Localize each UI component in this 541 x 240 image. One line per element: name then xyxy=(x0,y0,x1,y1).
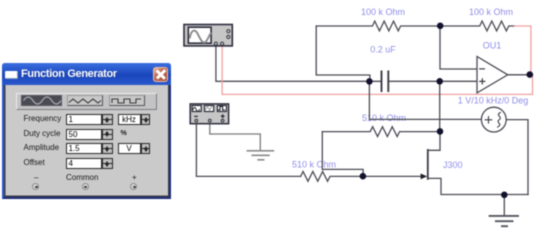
wire FG minus terminal to R4 and JFET gate xyxy=(196,124,300,176)
waveform button panel xyxy=(16,93,157,110)
wire red selected segment R2 right to output node F xyxy=(515,26,531,72)
junction node B xyxy=(437,128,444,135)
junction node G (ground net) xyxy=(501,192,508,199)
junction node C xyxy=(436,78,443,85)
transistor Q1 J300 JFET xyxy=(421,131,440,179)
junction node A xyxy=(360,173,367,180)
capacitor C1 0.2uF plates xyxy=(382,72,389,92)
svg-text:J300: J300 xyxy=(443,160,463,170)
wire node D down and right to AC source V1 xyxy=(369,81,481,119)
sine button (selected) xyxy=(21,95,62,106)
wire scope channel A to node D and capacitor xyxy=(216,46,381,81)
wire R3 left down with jog to node A xyxy=(322,132,363,174)
junction node D xyxy=(366,78,373,85)
junction node F (op-amp output) xyxy=(527,71,534,78)
wire op-amp output to node F xyxy=(508,74,528,76)
svg-text:1 V/10 kHz/0 Deg: 1 V/10 kHz/0 Deg xyxy=(458,95,529,105)
label J300 (JFET) xyxy=(443,160,463,170)
value label 510 k Ohm (R4) xyxy=(292,160,336,170)
value label 100 k Ohm (R2) xyxy=(469,7,513,17)
terminals xyxy=(32,183,39,190)
value label 510 k Ohm (R3) xyxy=(362,113,406,123)
rows xyxy=(24,114,62,123)
ground (FG common) xyxy=(210,124,273,160)
svg-text:510 k Ohm: 510 k Ohm xyxy=(362,113,406,123)
wire red scope channel B probe to output node F xyxy=(222,46,532,94)
AC source V1 circle xyxy=(481,107,506,132)
wire node C down to node B xyxy=(439,81,441,131)
triangle button xyxy=(67,95,103,106)
op-amp OU1 triangle xyxy=(477,57,508,93)
value label 0.2 uF (C1) xyxy=(370,45,396,55)
resistor R4 510k lower with leads xyxy=(301,172,421,182)
wire capacitor right to op-amp + input xyxy=(389,80,477,82)
wire feedback left vertical with jog to node D xyxy=(316,26,370,79)
wire node E down to op-amp - input xyxy=(440,26,477,69)
label OU1 (op-amp) xyxy=(483,41,502,51)
Function Generator dialog window xyxy=(2,63,171,199)
value label 1 V/10 kHz/0 Deg (V1) xyxy=(458,95,529,105)
ground (bottom right) xyxy=(490,198,518,226)
svg-text:100 k Ohm: 100 k Ohm xyxy=(361,7,405,17)
svg-text:OU1: OU1 xyxy=(483,41,502,51)
svg-text:100 k Ohm: 100 k Ohm xyxy=(469,7,513,17)
resistor R1 100k with leads xyxy=(316,21,440,31)
wire JFET source to bottom net and ground xyxy=(428,178,528,194)
square button xyxy=(109,95,145,106)
value label 100 k Ohm (R1) xyxy=(361,7,405,17)
oscilloscope icon XSC1 xyxy=(184,25,232,46)
function generator icon XFG1 xyxy=(190,104,228,124)
svg-text:510 k Ohm: 510 k Ohm xyxy=(292,160,336,170)
title bar xyxy=(2,63,171,85)
junction node E xyxy=(437,23,444,30)
terminal labels xyxy=(34,173,38,182)
svg-text:0.2 uF: 0.2 uF xyxy=(370,45,396,55)
resistor R2 100k with leads xyxy=(440,21,515,31)
resistor R3 510k upper with leads xyxy=(322,127,440,137)
wire AC source right down to bottom net xyxy=(506,120,528,195)
